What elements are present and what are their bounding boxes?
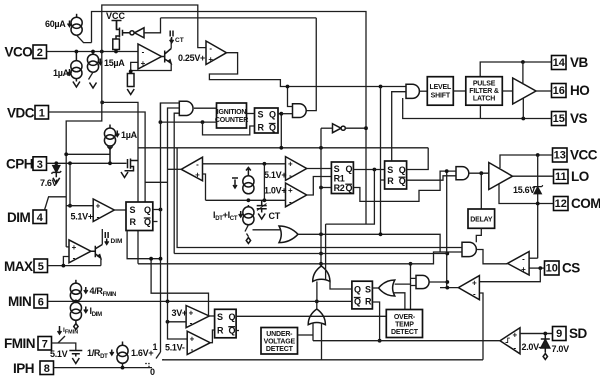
node dot VS-buf — [521, 117, 525, 121]
op-amp OA1 — [138, 44, 162, 69]
node dot 160-122 — [159, 120, 163, 124]
terminal diamond MIN — [74, 324, 78, 330]
node VCO junction dots — [75, 50, 118, 54]
svg-text:MIN: MIN — [8, 294, 31, 309]
wire A-IGN input3 from bus — [174, 113, 179, 253]
power VCC bar — [112, 21, 122, 30]
node dot AHO-in1 — [379, 85, 383, 89]
node dot clk-L1 — [279, 146, 283, 150]
block UNDER-VOLTAGE DETECT — [261, 328, 298, 355]
svg-text:-: - — [513, 344, 516, 353]
wire A-IGN input1 from bus — [160, 103, 179, 122]
svg-text:DETECT: DETECT — [391, 329, 419, 336]
wire H3 line — [138, 252, 462, 264]
label 1/RDT — [87, 348, 114, 360]
buffer U-HO — [513, 78, 536, 104]
terminal diamond SD — [543, 354, 547, 360]
block IGNITION COUNTER — [215, 103, 248, 128]
wire FMIN net — [52, 343, 76, 351]
wire A1 out to comp1 — [476, 250, 507, 264]
node dot CPH-zener — [54, 161, 58, 165]
node dot CPH-1uA — [108, 161, 112, 165]
node dot 202-122 — [201, 120, 205, 124]
label ICT current arrow — [170, 31, 184, 45]
pin 15 VS — [552, 111, 588, 126]
wire VB net — [480, 62, 551, 77]
current source I-RDT — [117, 342, 128, 368]
resistor R1 — [113, 39, 120, 52]
pin 10 CS — [545, 261, 581, 276]
switch SW60u — [77, 35, 92, 42]
block DELAY — [468, 209, 495, 228]
wire OR1 input left from QS branch — [325, 224, 327, 280]
svg-text:0: 0 — [150, 367, 155, 377]
pin 11 LO — [554, 169, 589, 184]
node dot MIN-node — [74, 300, 78, 304]
latch L6 — [215, 309, 239, 338]
svg-text:VB: VB — [570, 55, 589, 70]
svg-text:15: 15 — [553, 113, 565, 125]
svg-text:3: 3 — [37, 159, 43, 171]
node dot or0-380 — [379, 232, 383, 236]
svg-text:VOLTAGE: VOLTAGE — [264, 339, 296, 346]
or gate OR0 — [279, 226, 298, 243]
wire L1 reset path — [203, 122, 255, 135]
wire IPH net — [54, 367, 153, 369]
svg-text:Q: Q — [144, 205, 151, 215]
switch SW-PH — [156, 352, 164, 360]
wire OR0 output rail — [298, 234, 440, 252]
pin DIM 4 — [7, 210, 47, 225]
node dot and3-join — [445, 280, 449, 284]
wire H1 protection line — [177, 148, 462, 248]
wire CPH net — [47, 162, 127, 164]
wire VDC net — [49, 112, 146, 202]
node dot or2-h3 — [409, 262, 413, 266]
node dot L4Q — [159, 208, 163, 212]
wire inverter input from fault rail — [321, 127, 333, 129]
svg-text:R: R — [130, 217, 137, 227]
svg-text:CS: CS — [562, 261, 580, 276]
wire MIN net — [48, 300, 168, 302]
wire L2 Qbar deadtime path — [353, 171, 456, 201]
svg-text:5.1V+: 5.1V+ — [264, 170, 286, 180]
wire SD net — [520, 333, 553, 335]
svg-text:Q: Q — [354, 284, 361, 294]
wire COM net — [499, 184, 554, 204]
wire phase select rail — [163, 359, 483, 361]
wire buffer bottom to VS — [522, 98, 524, 118]
wire 5.1V comp out to L2 S — [307, 168, 332, 170]
svg-text:-: - — [209, 44, 212, 53]
svg-text:VDC: VDC — [7, 106, 35, 121]
svg-text:9: 9 — [556, 328, 562, 340]
current source I1u-VDC — [104, 125, 115, 164]
svg-text:+: + — [288, 186, 293, 195]
svg-text:FILTER &: FILTER & — [469, 88, 499, 95]
and gate A3 — [416, 275, 429, 288]
svg-text:VCC: VCC — [106, 11, 126, 21]
svg-text:CPH: CPH — [6, 157, 33, 172]
label IDIM-min — [84, 306, 102, 318]
switch SW-DIM — [45, 197, 49, 210]
comparator U-3V — [186, 306, 209, 328]
wire UV detect output — [298, 334, 314, 336]
svg-text:CT: CT — [175, 37, 184, 44]
wire A2 output to LO buffer — [469, 172, 489, 174]
wire Q1 emitter to R2 top — [131, 63, 172, 71]
wire Q1 collector — [170, 38, 172, 49]
current source I15u — [87, 52, 98, 73]
wire L1 Q output down to clock line — [278, 114, 282, 148]
svg-text:1.0V+: 1.0V+ — [264, 186, 286, 196]
node dot R2-bus — [319, 186, 323, 190]
label 1uA-VDC — [115, 130, 137, 140]
node dot IPH-RDT — [121, 366, 125, 370]
svg-text:OVER-: OVER- — [394, 314, 416, 321]
node dot osc-fb — [286, 85, 290, 89]
svg-text:1: 1 — [39, 108, 45, 120]
wire delay feed — [480, 173, 482, 209]
wire inverter output to x366 rail — [345, 127, 366, 129]
transistor M-pmos — [116, 21, 130, 40]
transistor Q-DIM — [91, 245, 102, 259]
svg-text:S: S — [130, 205, 136, 215]
comparator U-CS — [508, 252, 530, 276]
label 60uA — [45, 19, 71, 29]
svg-text:Q: Q — [229, 312, 236, 322]
ground arrow below CT — [258, 214, 265, 220]
svg-text:7.6V: 7.6V — [40, 178, 58, 188]
svg-text:Q: Q — [269, 110, 276, 120]
wire OA-MAX plus from dim node — [66, 246, 69, 248]
svg-text:Q: Q — [346, 164, 353, 174]
svg-text:11: 11 — [555, 171, 567, 183]
node dot sd-r — [378, 339, 382, 343]
node dot fault-join — [445, 286, 449, 290]
current source I-DT-CT — [243, 205, 254, 225]
svg-text:-: - — [97, 213, 100, 222]
pin FMIN 7 — [4, 336, 52, 351]
svg-text:R: R — [365, 297, 372, 307]
wire MAX net — [48, 265, 101, 267]
svg-text:SD: SD — [569, 326, 588, 341]
svg-text:1.6V+: 1.6V+ — [131, 348, 153, 358]
resistor R2 — [127, 74, 134, 87]
zener D-15.6V — [533, 185, 543, 193]
wire L2 Q to L3 S — [353, 169, 384, 171]
node dot f321-263 — [319, 262, 323, 266]
wire QDIM emitter to MAX wire — [99, 258, 102, 266]
node dot dim-70 — [68, 204, 72, 208]
wire OR2 out to L5 S — [372, 287, 378, 289]
svg-text:60µA: 60µA — [45, 19, 66, 29]
svg-text:10: 10 — [546, 263, 558, 275]
svg-text:DELAY: DELAY — [470, 217, 493, 224]
node dot inv-366 — [364, 126, 368, 130]
block PULSE FILTER LATCH — [466, 77, 503, 106]
capacitor C-FMIN — [69, 351, 82, 354]
wire OR1 input from fault node — [316, 281, 318, 301]
svg-text:S: S — [334, 164, 340, 174]
wire comp to L4 S — [114, 209, 126, 211]
current source I60u — [71, 14, 82, 35]
wire QS branch down to OR1 feed — [326, 170, 375, 225]
wire main bus x160 — [160, 103, 162, 352]
block OVER-TEMP DETECT — [386, 310, 422, 338]
wire OA-MAX minus to MAX — [63, 257, 69, 266]
svg-text:14: 14 — [553, 57, 566, 69]
wire L5 Q to OR1 — [330, 280, 352, 289]
pin VDC 1 — [7, 106, 49, 121]
wire counter to L1 S — [247, 113, 255, 115]
wire L5 Qbar to OR3 line — [168, 300, 352, 302]
inverter U-osc — [333, 124, 346, 133]
pin 12 COM — [554, 196, 600, 211]
svg-text:1µA: 1µA — [121, 130, 138, 140]
node dot VDC-branch — [100, 101, 104, 105]
latch L3 — [385, 161, 407, 189]
node dot ct-src — [247, 198, 251, 202]
label 4/RFMIN — [84, 286, 116, 298]
comparator U-5.1V — [286, 157, 307, 181]
svg-text:+: + — [190, 335, 195, 344]
svg-text:2.0V-: 2.0V- — [522, 342, 542, 352]
wire CPH to DIM switch chain — [69, 163, 71, 205]
svg-text:5.1V-: 5.1V- — [165, 343, 185, 353]
comparator U-OC2 — [458, 276, 479, 300]
wire ramp to CT vertical — [263, 164, 265, 201]
wire delay out to AND1 — [476, 228, 481, 242]
or gate OR1 (up) — [313, 266, 330, 281]
svg-text:Q: Q — [399, 165, 406, 175]
svg-text:LO: LO — [571, 169, 589, 184]
pin 13 VCC — [553, 148, 598, 163]
comparator U-SD — [500, 328, 520, 354]
wire comp2 out to fault dot — [440, 287, 458, 289]
wire L6 Q to OR2 feed — [236, 284, 410, 316]
svg-text:0.25V+: 0.25V+ — [178, 53, 205, 63]
svg-text:S: S — [217, 312, 223, 322]
wire CS node to comp2 plus — [479, 268, 540, 282]
wire 5.1V comp out to L6 R — [210, 330, 214, 343]
ground below I1u-VCO — [73, 82, 80, 88]
node dot h2-447 — [445, 252, 449, 256]
svg-text:R2: R2 — [334, 183, 345, 193]
node dot clk-321 — [319, 146, 323, 150]
node dot VCC-zener — [536, 153, 540, 157]
wire node122 line into counter — [160, 121, 216, 123]
label IDIM arrow — [105, 232, 123, 245]
svg-text:1µA: 1µA — [53, 68, 70, 78]
svg-text:VCC: VCC — [570, 148, 598, 163]
svg-text:R: R — [258, 123, 265, 133]
node dot QS-branch — [373, 168, 377, 172]
svg-text:IGNITION: IGNITION — [217, 109, 247, 116]
svg-text:FMIN: FMIN — [4, 336, 35, 351]
svg-text:+: + — [512, 331, 517, 340]
node dot L1Q — [279, 112, 283, 116]
svg-text:5.1V: 5.1V — [50, 349, 68, 359]
svg-text:S: S — [258, 110, 264, 120]
wire LO net — [513, 175, 554, 177]
wire VS net — [403, 98, 552, 119]
node dot COM-zener — [536, 202, 540, 206]
zener D-7.6V — [52, 163, 62, 183]
error amp EA — [181, 157, 202, 181]
wire L3 rail (inverter-top feedback) — [161, 17, 317, 19]
wire VCO to 0.25V comparator via top — [102, 5, 206, 52]
current source I-4RFMIN — [70, 280, 81, 301]
node dot SD-pin — [543, 332, 547, 336]
svg-text:+: + — [195, 171, 200, 180]
terminal diamond DT — [246, 238, 250, 244]
pin 14 VB — [552, 55, 589, 70]
svg-text:COUNTER: COUNTER — [215, 117, 248, 124]
wire L4 Qbar stub — [153, 221, 158, 223]
svg-text:-: - — [196, 160, 199, 169]
wire A-HO input2 from L3 top — [392, 92, 406, 161]
ground M1 source — [121, 172, 128, 178]
node dot MIN-rail — [166, 300, 170, 304]
node dot bus-258 — [159, 257, 163, 261]
pin VCO 2 — [5, 45, 47, 60]
pin IPH 8 — [13, 361, 54, 376]
node dot a2-fault — [445, 169, 449, 173]
wire L3 Qbar to AND2 — [407, 176, 456, 180]
wire 5.1Vdim plus input — [66, 205, 93, 207]
svg-text:R1: R1 — [334, 174, 345, 184]
comparator U-1.0V — [286, 183, 307, 207]
wire inverter input from L3 rail — [144, 18, 161, 33]
wire pulse to HO buffer — [502, 90, 512, 92]
wire A-IGN input2 from bus — [168, 108, 180, 301]
wire L3 Q up to clock rail — [407, 148, 429, 170]
svg-text:LATCH: LATCH — [473, 96, 495, 103]
svg-text:+: + — [72, 243, 77, 252]
wire VCC down through zener chain — [537, 155, 539, 258]
current source I-top (charge) — [243, 168, 254, 194]
wire OR0 input from DT switch — [253, 229, 282, 231]
svg-text:COM: COM — [571, 196, 600, 211]
inverter U-inv (bubble output to pmos gate) — [130, 28, 144, 38]
label ICT arrow beside charge source — [232, 178, 238, 188]
wire CS net — [529, 267, 544, 269]
node dot ramp-264 — [263, 162, 267, 166]
and gate A1-CS — [462, 242, 476, 256]
wire H2 line — [174, 253, 447, 255]
comparator U-0.25V — [206, 41, 227, 65]
pin CPH 3 — [6, 157, 47, 172]
switch SW-FMIN — [58, 336, 65, 343]
label IFMIN arrow — [58, 326, 79, 336]
svg-text:6: 6 — [38, 297, 44, 309]
capacitor CT — [257, 200, 267, 212]
svg-text:VS: VS — [570, 111, 588, 126]
node dot VB-buf — [521, 60, 525, 64]
buffer U-LO — [489, 163, 513, 190]
svg-text:+: + — [96, 202, 101, 211]
wire 60uA to top rail — [92, 12, 367, 225]
node dot ct-cap — [263, 198, 267, 202]
wire OR3 input left — [312, 323, 314, 341]
node dot f321-253 — [319, 252, 323, 256]
svg-text:+: + — [189, 308, 194, 317]
svg-text:+: + — [472, 279, 477, 288]
svg-text:12: 12 — [555, 198, 567, 210]
current source I-IDIM — [70, 302, 81, 323]
svg-text:1: 1 — [153, 342, 158, 352]
pin MIN 6 — [8, 294, 48, 309]
node dot MAX-fb — [62, 264, 66, 268]
svg-text:Q: Q — [354, 297, 361, 307]
svg-text:15.6V: 15.6V — [513, 185, 535, 195]
svg-text:MAX: MAX — [4, 259, 33, 274]
wire A-HO out to level shift — [420, 90, 428, 92]
wire level shift to pulse filter — [453, 90, 466, 92]
wire ramp node line (EA minus to comparators) — [203, 163, 286, 165]
wire uv ref vertical — [168, 301, 188, 339]
svg-text:TEMP: TEMP — [395, 322, 414, 329]
svg-text:+: + — [141, 59, 146, 68]
wire A-IGN output to counter — [194, 107, 217, 109]
transistor Q1 — [162, 49, 172, 64]
wire L4 bottom to node258 — [127, 231, 160, 259]
node dot or0-321 — [319, 232, 323, 236]
svg-text:15µA: 15µA — [104, 58, 125, 68]
svg-text:DIM: DIM — [111, 238, 123, 245]
svg-text:2: 2 — [37, 47, 43, 59]
wire L2 R2 stub — [321, 187, 331, 189]
latch L5 (mirrored) — [352, 281, 373, 309]
switch SW15u — [89, 72, 94, 79]
node dot bus-151 — [149, 257, 153, 261]
svg-text:DETECT: DETECT — [266, 346, 294, 353]
svg-text:HO: HO — [570, 83, 589, 98]
svg-text:IPH: IPH — [13, 361, 34, 376]
or gate OR3 (up) — [308, 309, 325, 325]
wire A3 input stubs — [411, 264, 417, 286]
node dot uv-ref — [166, 320, 170, 324]
latch L2 — [331, 162, 353, 194]
svg-text:8: 8 — [44, 363, 50, 375]
wire fault rail x380 — [380, 87, 382, 235]
transistor M1 — [125, 159, 139, 171]
svg-text:3V+: 3V+ — [172, 308, 187, 318]
current source I1u-VCO — [71, 52, 82, 82]
latch L1 — [255, 108, 279, 133]
wire OR2 input2 from overtemp — [393, 293, 405, 310]
svg-text:-: - — [190, 319, 193, 328]
svg-text:CT: CT — [269, 211, 281, 221]
svg-text:SHIFT: SHIFT — [431, 93, 451, 100]
node dot or3-out — [315, 300, 319, 304]
ground below FMIN cap — [72, 354, 79, 364]
ground below I15u — [90, 83, 97, 89]
wire OR3 input right — [321, 323, 323, 360]
label IDT+ICT — [213, 210, 243, 222]
wire fault rail x321 — [320, 128, 322, 266]
wire DIM switch horizontal — [48, 196, 66, 198]
wire 3V minus from bus — [168, 321, 187, 323]
comparator U-5.1VUV — [187, 331, 210, 354]
wire 1uA node line — [66, 153, 109, 155]
wire SD comp out fault line — [313, 340, 500, 342]
pin 16 HO — [552, 83, 590, 98]
node dot delay-tap — [479, 171, 483, 175]
wire OR3 output up — [316, 301, 318, 309]
wire A3 out — [429, 281, 447, 283]
